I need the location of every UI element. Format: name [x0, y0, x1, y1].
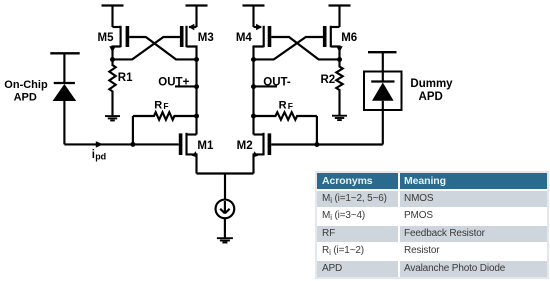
feedback resistor RF (right)	[254, 112, 317, 120]
svg-text:M6: M6	[341, 32, 357, 44]
svg-text:On-Chip: On-Chip	[4, 79, 48, 91]
node dot RF right / M2 gate wire	[314, 142, 319, 147]
wire RF right down to M2 gate wire	[316, 116, 318, 145]
node dot M3 drain (OUT+)	[194, 57, 199, 62]
wire M2 gate to dummy APD	[271, 143, 383, 145]
transistor M3 (PMOS)	[182, 24, 197, 60]
ground under R2	[332, 116, 347, 120]
svg-text:R: R	[279, 99, 287, 111]
wire M5 gate to M3 drain (cross-coupling)	[129, 37, 196, 59]
node dot RF right / OUT-	[251, 114, 256, 119]
node dot RF left / OUT+	[194, 114, 199, 119]
node dot M6 drain	[337, 57, 342, 62]
VDD rail of M6	[329, 6, 351, 28]
table row PMOS	[317, 208, 547, 224]
label RF right	[279, 99, 293, 111]
box around dummy APD	[364, 72, 402, 111]
wire M3 gate to M5 drain (cross-coupling)	[113, 37, 180, 59]
table row RF	[317, 226, 547, 242]
VDD rail of M5	[102, 6, 124, 28]
svg-text:M4: M4	[236, 32, 253, 44]
label ipd	[92, 149, 106, 162]
node dot RF left / ipd wire	[130, 142, 135, 147]
wire ipd (APD to M1 gate)	[64, 143, 178, 145]
ground under R1	[105, 116, 120, 120]
label On-Chip APD	[4, 79, 48, 104]
svg-text:M3: M3	[198, 32, 214, 44]
svg-text:R: R	[154, 99, 162, 111]
transistor M6 (PMOS)	[325, 26, 343, 60]
table of acronyms	[317, 173, 547, 277]
svg-text:M2: M2	[237, 140, 253, 152]
svg-text:APD: APD	[14, 92, 37, 104]
svg-text:F: F	[288, 101, 293, 111]
wire current source to ground	[224, 218, 226, 238]
photodiode D2 dummy APD	[371, 72, 394, 145]
wire M4 gate to M6 drain (cross-coupling)	[271, 37, 339, 59]
node dot M4 drain (OUT-)	[251, 57, 256, 62]
svg-text:APD: APD	[419, 91, 443, 103]
wire OUT- column (M4 drain to M2 drain)	[252, 60, 254, 135]
resistor R2	[336, 60, 342, 116]
table row NMOS	[317, 191, 547, 207]
transistor M1 (NMOS)	[181, 133, 198, 174]
svg-text:F: F	[163, 101, 168, 111]
transistor M2 (NMOS)	[253, 133, 270, 174]
VDD rail of M4	[243, 6, 265, 28]
wire tail (M1/M2 sources join)	[197, 172, 254, 174]
node dot M5 drain	[110, 57, 115, 62]
wire tail to current source	[224, 174, 226, 201]
svg-text:M5: M5	[98, 32, 115, 44]
svg-text:Dummy: Dummy	[410, 78, 453, 90]
svg-text:pd: pd	[95, 152, 106, 162]
table row Ri	[317, 243, 547, 259]
node dot OUT+	[194, 84, 199, 89]
VDD rail of M3	[186, 6, 208, 28]
svg-text:M1: M1	[197, 140, 214, 152]
wire RF left down to input node	[132, 116, 134, 144]
ground under current source	[217, 238, 233, 242]
transistor M4 (PMOS)	[254, 24, 270, 60]
table row APD	[317, 261, 547, 277]
wire M6 gate to M4 drain (cross-coupling)	[254, 37, 323, 59]
node dot OUT-	[251, 84, 256, 89]
photodiode D1 on-chip APD	[53, 83, 77, 144]
feedback resistor RF (left)	[133, 112, 197, 120]
label RF left	[154, 99, 168, 111]
label Dummy APD	[410, 78, 453, 103]
table header row	[317, 173, 547, 189]
VDD rail of on-chip APD	[50, 53, 79, 83]
svg-text:R1: R1	[118, 72, 133, 84]
transistor M5 (PMOS)	[109, 26, 127, 60]
wire OUT+ column (M3 drain to M1 drain)	[195, 60, 197, 135]
VDD rail of dummy APD	[368, 52, 397, 71]
current source I1	[216, 200, 235, 219]
resistor R1	[109, 60, 115, 117]
svg-text:R2: R2	[320, 74, 335, 86]
node tick under OUT-	[254, 85, 278, 87]
arrow ipd current direction	[96, 141, 103, 147]
node tick under OUT+	[175, 85, 197, 87]
